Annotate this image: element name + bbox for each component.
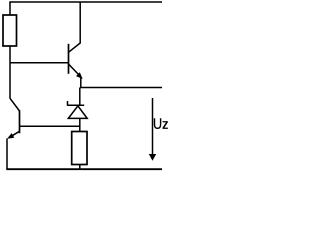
transistor Q2 base bar — [19, 110, 21, 133]
resistor R1 — [3, 15, 17, 46]
zener diode D1 anode triangle — [68, 106, 87, 119]
wire zener top lead — [79, 88, 81, 106]
wire top rail — [9, 1, 162, 3]
wire Q1 collector vertical to top rail — [79, 2, 81, 44]
wire left vertical from top rail to R1 — [9, 2, 11, 15]
wire R2 bottom lead — [79, 165, 81, 170]
transistor Q1 emitter arrowhead — [76, 72, 83, 79]
wire emitter output rail — [80, 87, 162, 89]
transistor Q2 emitter arrowhead — [7, 133, 14, 139]
wire zener bottom lead — [79, 118, 81, 131]
zener diode D1 cathode left wing — [67, 101, 69, 106]
wire Q1 emitter vertical drop — [80, 78, 82, 88]
resistor R2 — [72, 132, 87, 165]
transistor Q1 collector diagonal — [69, 43, 81, 52]
wire base wire of Q2 — [20, 125, 80, 127]
wire base wire of Q1 — [10, 62, 69, 64]
arrow Uz output voltage head — [149, 154, 156, 161]
label Uz letter U — [154, 118, 162, 129]
wire Q2 emitter vertical to bottom rail — [6, 139, 8, 170]
label Uz letter z — [163, 121, 168, 129]
wire left vertical from R1 down to Q2 collector — [9, 46, 11, 99]
transistor Q2 emitter diagonal — [10, 131, 20, 137]
transistor Q1 base bar — [68, 44, 70, 74]
wire bottom rail — [6, 168, 162, 170]
arrow Uz output voltage shaft — [152, 98, 154, 155]
zener diode D1 cathode bar — [68, 104, 85, 106]
transistor Q1 emitter diagonal — [69, 64, 80, 76]
transistor Q2 collector diagonal — [10, 98, 20, 111]
